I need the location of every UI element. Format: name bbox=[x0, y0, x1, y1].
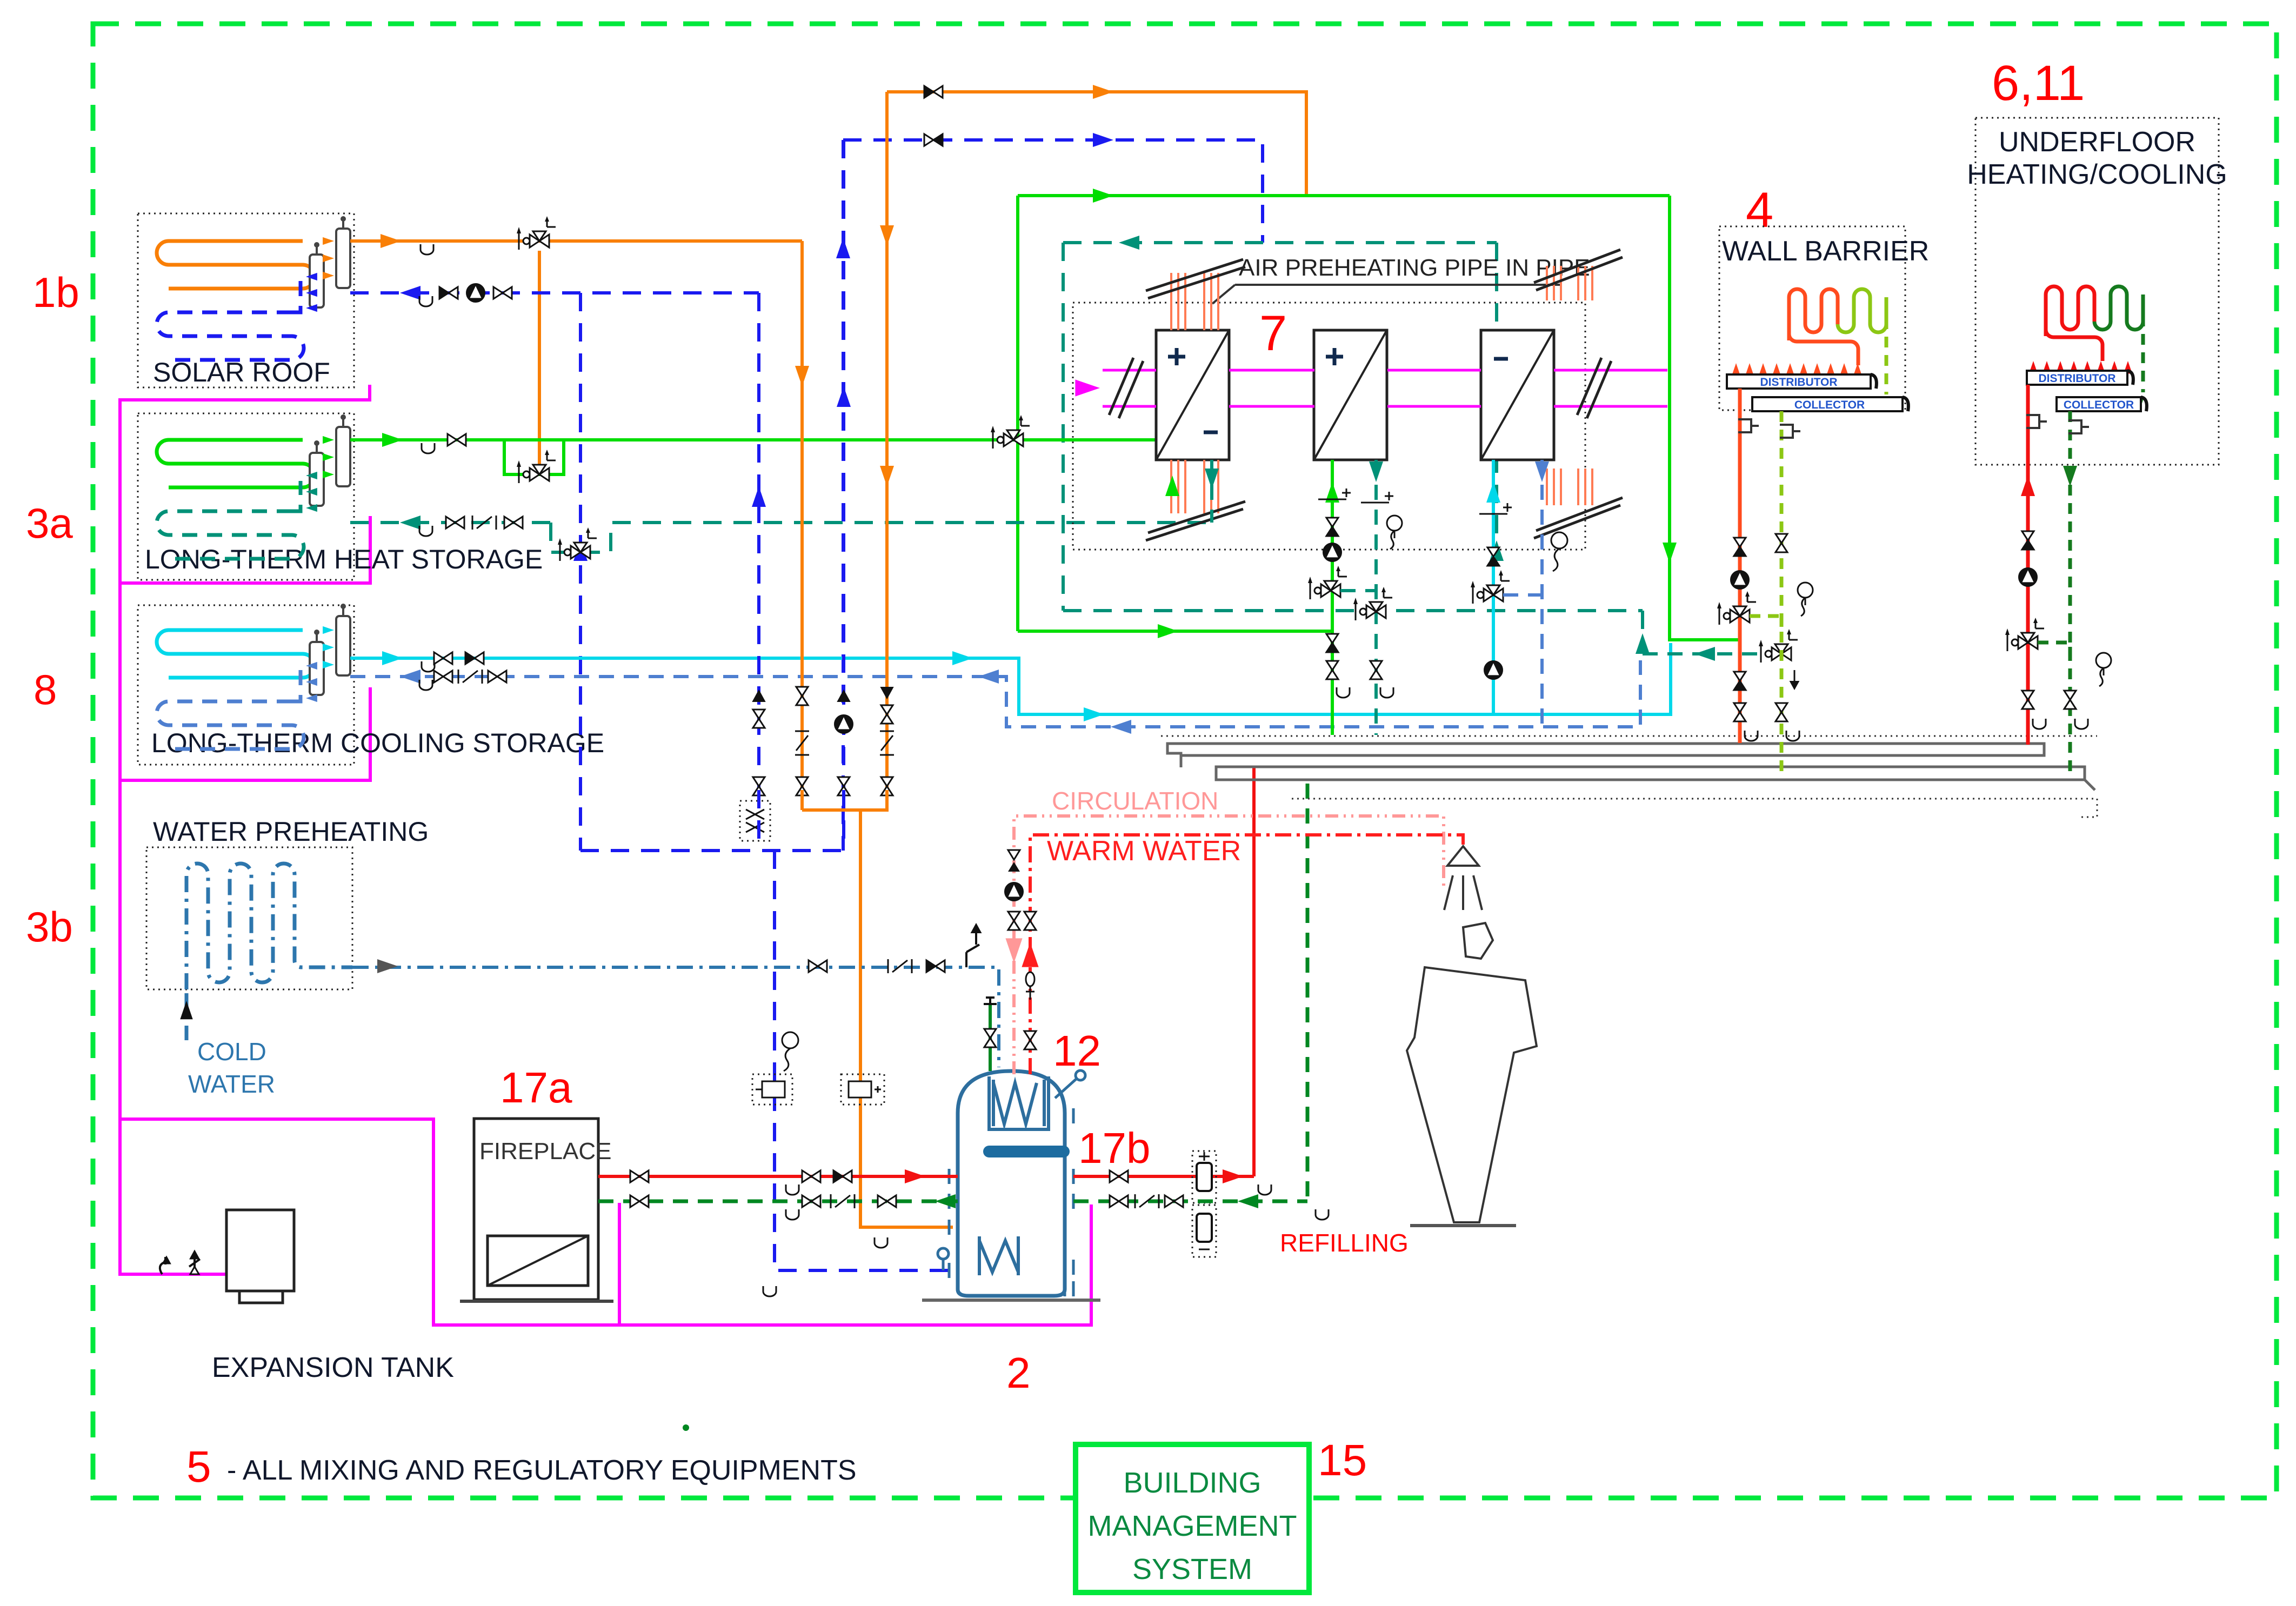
arrow ltcs supply 3 bbox=[1084, 707, 1104, 721]
pump solar return bbox=[466, 284, 485, 302]
box WATER PREHEATING bbox=[146, 847, 352, 989]
drain lths supply bbox=[422, 443, 435, 453]
svg-text:WATER: WATER bbox=[188, 1070, 275, 1098]
pipe teal left drop bbox=[1062, 243, 1065, 611]
pipe refilling drop bbox=[1306, 784, 1310, 1201]
duct break left bbox=[1109, 358, 1143, 418]
drain blue at tank bbox=[763, 1286, 776, 1296]
ltcs hx cylinder 2 bbox=[310, 642, 324, 695]
pipe ltcs blue return bbox=[350, 660, 1640, 727]
arrow fireplace red bbox=[905, 1169, 925, 1183]
tick E2 teal bbox=[1361, 502, 1389, 504]
pipe solar orange supply bbox=[350, 239, 802, 243]
valve underfloor green bbox=[2064, 691, 2076, 700]
svg-text:CIRCULATION: CIRCULATION bbox=[1052, 787, 1218, 815]
threeway wall red bbox=[1730, 610, 1740, 623]
valve cold water bbox=[809, 960, 818, 972]
duct roof corner top bbox=[1534, 250, 1623, 290]
svg-text:12: 12 bbox=[1053, 1027, 1101, 1075]
arrow teal riser bbox=[1636, 633, 1650, 654]
svg-text:4: 4 bbox=[1746, 183, 1773, 238]
pipe lths green supply bbox=[350, 440, 1172, 460]
person body bbox=[1407, 967, 1537, 1222]
pipe fireplace red supply bbox=[598, 1175, 958, 1178]
drain solar supply bbox=[421, 244, 433, 255]
expansion tank body bbox=[226, 1210, 294, 1291]
gauge E3 cornflower bbox=[1551, 532, 1567, 548]
meter box on orange drop bbox=[841, 1074, 884, 1105]
svg-text:7: 7 bbox=[1259, 306, 1287, 361]
duct risers box corner bbox=[1546, 266, 1548, 300]
branch E2 3ways bbox=[1340, 591, 1376, 602]
arrow blue riser A bbox=[752, 486, 766, 507]
valve fireplace red 1 bbox=[630, 1170, 639, 1182]
wall coil red bbox=[1789, 289, 1838, 340]
lths hx arrows bbox=[323, 436, 334, 444]
arrow orange riser A bbox=[795, 366, 809, 386]
pipe lths teal return dip bbox=[551, 523, 1212, 552]
svg-text:- ALL MIXING AND REGULATORY EQ: - ALL MIXING AND REGULATORY EQUIPMENTS bbox=[227, 1455, 857, 1486]
arrow lths return bbox=[400, 516, 421, 530]
pipe wall lime return bbox=[1780, 411, 1784, 777]
tick E3 cyan bbox=[1479, 513, 1507, 515]
arrow tank red out bbox=[1223, 1169, 1243, 1183]
arrow green supply hp bbox=[1158, 624, 1178, 638]
duct roof E1 top bbox=[1146, 259, 1245, 298]
safety valve cold water bbox=[966, 933, 979, 967]
arrow underfloor green bbox=[2063, 466, 2077, 486]
threeway valve solar bbox=[530, 235, 539, 247]
slab bar 1 bbox=[1167, 744, 2044, 767]
arrow cold water bbox=[377, 959, 398, 973]
box SOLAR ROOF bbox=[138, 213, 354, 387]
lths teal coil riser bbox=[292, 481, 301, 511]
lths hx cylinder 2 bbox=[310, 453, 324, 506]
pump E2 green bbox=[1323, 543, 1341, 561]
drain E2 green bbox=[1337, 687, 1350, 698]
wall distributor arrows bbox=[1732, 363, 1740, 376]
pipe teal riser to wall return bbox=[1641, 611, 1644, 654]
pipe green drop to mixing valve bbox=[1016, 196, 1019, 631]
box UNDERFLOOR bbox=[1975, 118, 2219, 465]
check cluster blue B bbox=[838, 691, 850, 701]
duct risers E1 bbox=[1170, 273, 1172, 330]
pipe orange top bbox=[887, 92, 1306, 196]
pipe cluster vertical 0 bbox=[757, 686, 760, 790]
valve wall red check bbox=[1734, 538, 1746, 547]
pipe teal top bbox=[1063, 241, 1497, 244]
pipe cluster vertical 1 bbox=[800, 686, 804, 790]
svg-text:WARM WATER: WARM WATER bbox=[1047, 835, 1241, 867]
arrow ltcs return bbox=[400, 670, 421, 684]
ltcs hx cylinder 1 bbox=[336, 616, 350, 675]
svg-text:DISTRIBUTOR: DISTRIBUTOR bbox=[1760, 376, 1837, 389]
slab bottom dotted bbox=[1292, 799, 2097, 817]
threeway valve lths line bbox=[1004, 433, 1013, 446]
tank inner top coil bbox=[989, 1076, 1049, 1129]
check cold water bbox=[926, 960, 936, 972]
pipe cluster vertical 2 bbox=[842, 686, 845, 790]
arrow E2 teal bbox=[1369, 461, 1383, 482]
drain ltcs supply bbox=[422, 661, 435, 672]
valve green feed bbox=[984, 1029, 996, 1038]
pipe tank red out bbox=[1073, 1175, 1254, 1178]
ltcs hx arrows bbox=[323, 626, 334, 634]
pipe green middle bbox=[1018, 194, 1670, 197]
svg-text:3a: 3a bbox=[26, 499, 73, 547]
heat exchanger E2 bbox=[1314, 330, 1387, 460]
ltcs coil riser bbox=[292, 670, 301, 701]
arrow green middle bbox=[1093, 189, 1113, 203]
pipe blue top bbox=[843, 140, 1263, 243]
valve E2 green 2 bbox=[1326, 634, 1338, 643]
pipe wall red supply bbox=[1738, 389, 1742, 743]
fireplace inner unit bbox=[488, 1236, 588, 1286]
valve wall red 3 bbox=[1734, 703, 1746, 712]
water preheating coil bbox=[186, 864, 352, 989]
underfloor coil green drop bbox=[2141, 297, 2145, 392]
tank handle bbox=[1055, 1079, 1077, 1098]
arrow orange riser B bbox=[880, 466, 894, 486]
pipe underfloor green bbox=[2068, 411, 2072, 777]
valve tank green 2 bbox=[1165, 1195, 1174, 1207]
lths green coil bbox=[157, 440, 315, 487]
pump E3 cyan bbox=[1484, 661, 1503, 679]
arrow blue drop 1074 bbox=[573, 540, 588, 561]
slab top dotted bbox=[1161, 735, 2097, 737]
check cluster orange B bbox=[881, 687, 893, 698]
drain wall red bbox=[1745, 731, 1758, 741]
pipe blue junction H bbox=[580, 849, 845, 852]
valve wall lime 2 bbox=[1776, 703, 1787, 712]
svg-text:LONG-THERM COOLING STORAGE: LONG-THERM COOLING STORAGE bbox=[151, 728, 604, 758]
pipe blue drop at 1074 bbox=[579, 293, 582, 851]
arrow tank green return bbox=[1238, 1194, 1258, 1208]
valve underfloor red 2 bbox=[2022, 691, 2034, 700]
svg-text:8: 8 bbox=[34, 666, 57, 713]
valve warm water 2 bbox=[1024, 1031, 1036, 1040]
box BUILDING MANAGEMENT SYSTEM bbox=[1076, 1444, 1309, 1592]
pump wall red bbox=[1731, 571, 1749, 589]
valve on blue top bbox=[924, 134, 933, 146]
green bypass frame bbox=[504, 440, 564, 474]
gauge on blue drop bbox=[782, 1032, 798, 1048]
pipe orange riser A bbox=[800, 241, 804, 686]
pipe orange drop from 3way bbox=[538, 251, 541, 465]
connector green bbox=[1192, 1205, 1216, 1257]
cold water inlet bbox=[185, 993, 189, 1040]
meter box on blue A bbox=[740, 801, 770, 841]
check valve ltcs supply bbox=[465, 652, 475, 664]
underfloor coil red bbox=[2046, 286, 2094, 336]
pipe lths teal return bbox=[350, 521, 551, 524]
underfloor DISTRIBUTOR bar bbox=[2027, 371, 2127, 385]
arrow E1 teal bbox=[1205, 469, 1219, 489]
magenta branch to heat storage box bbox=[120, 516, 370, 583]
duct roof corner bottom bbox=[1534, 498, 1623, 538]
cold water arrow bbox=[180, 1001, 192, 1019]
valve cluster low 1 bbox=[796, 777, 808, 786]
green dot bbox=[683, 1424, 689, 1431]
box FIREPLACE bbox=[474, 1119, 598, 1300]
bracket wall lime bbox=[1780, 425, 1800, 438]
reg tank green bbox=[1134, 1194, 1136, 1208]
valve cluster blue A bbox=[753, 710, 765, 719]
pipe green feed to tank bbox=[989, 1003, 992, 1071]
svg-text:SYSTEM: SYSTEM bbox=[1132, 1553, 1252, 1585]
svg-text:WALL BARRIER: WALL BARRIER bbox=[1722, 236, 1929, 267]
valve ltcs return 1 bbox=[434, 671, 443, 682]
valve on orange top bbox=[924, 86, 933, 98]
pipe teal bottom run bbox=[1063, 609, 1643, 612]
svg-text:15: 15 bbox=[1318, 1436, 1367, 1485]
bracket underfloor red bbox=[2026, 415, 2047, 428]
svg-text:REFILLING: REFILLING bbox=[1280, 1229, 1409, 1257]
arrow orange drop bbox=[880, 225, 894, 246]
solar blue return coil bbox=[157, 312, 304, 360]
svg-text:WATER PREHEATING: WATER PREHEATING bbox=[153, 817, 429, 847]
arrow green drop right bbox=[1663, 543, 1677, 563]
tank ports bbox=[949, 1169, 958, 1184]
check cluster blue A bbox=[753, 691, 765, 701]
svg-text:BUILDING: BUILDING bbox=[1123, 1467, 1261, 1499]
pump circulation bbox=[1005, 882, 1023, 901]
arrow teal wall return bbox=[1694, 647, 1715, 661]
drain underfloor green bbox=[2075, 719, 2088, 729]
pipe warm water bbox=[1030, 835, 1463, 1074]
svg-text:5: 5 bbox=[186, 1442, 211, 1491]
svg-text:3b: 3b bbox=[26, 903, 73, 951]
pipe solar blue return bbox=[350, 291, 759, 295]
pipe E2 green bbox=[1331, 460, 1334, 735]
pipe cold water run bbox=[352, 967, 999, 1067]
arrow E3 cornflower bbox=[1535, 461, 1549, 482]
valve lths return 2 bbox=[504, 517, 513, 528]
pipe fireplace green return bbox=[598, 1200, 958, 1203]
valve underfloor red check bbox=[2022, 531, 2034, 540]
tick E2 green bbox=[1318, 499, 1346, 500]
valve cluster low 3 bbox=[881, 777, 893, 786]
solar orange coil bbox=[157, 241, 315, 289]
valve E3 cyan bbox=[1487, 547, 1499, 557]
valve cluster low 2 bbox=[838, 777, 850, 786]
heat exchanger E3 bbox=[1481, 330, 1554, 460]
bracket underfloor green bbox=[2068, 420, 2089, 433]
threeway E2 teal bbox=[1366, 605, 1376, 618]
box LONG-THERM HEAT STORAGE bbox=[138, 413, 354, 580]
arrow teal top bbox=[1119, 236, 1139, 250]
pipe blue riser B bbox=[842, 140, 845, 686]
pipe E1 teal port bbox=[1210, 460, 1213, 523]
vent warm water bbox=[1026, 983, 1034, 1000]
pipe underfloor red bbox=[2026, 385, 2030, 745]
drain red riser bbox=[1258, 1185, 1271, 1195]
svg-text:COLLECTOR: COLLECTOR bbox=[1794, 399, 1865, 411]
svg-text:COLD: COLD bbox=[197, 1038, 266, 1066]
svg-text:HEATING/COOLING: HEATING/COOLING bbox=[1967, 159, 2227, 190]
box LONG-THERM COOLING STORAGE bbox=[138, 605, 354, 765]
bracket wall red bbox=[1738, 419, 1759, 432]
magenta branch to cooling storage box bbox=[120, 687, 370, 780]
shower spray bbox=[1444, 875, 1482, 910]
duct magenta lower bbox=[1103, 405, 1667, 408]
valve warm water bbox=[1024, 912, 1036, 921]
pipe green supply to heat pump bbox=[1018, 630, 1332, 633]
duct magenta upper bbox=[1103, 369, 1667, 372]
drain fireplace green bbox=[786, 1209, 799, 1220]
valve E2 green check bbox=[1326, 518, 1338, 527]
fitting green feed bbox=[984, 998, 997, 1004]
pipe tank green return bbox=[1073, 1200, 1307, 1203]
underfloor coil green bbox=[2094, 286, 2143, 330]
underfloor distributor arrows bbox=[2029, 361, 2038, 374]
drain underfloor red bbox=[2033, 719, 2046, 729]
meter box on blue drop bbox=[752, 1074, 792, 1105]
valve fireplace red 2 bbox=[802, 1170, 811, 1182]
drain refilling bbox=[1316, 1209, 1329, 1220]
solar blue coil riser bbox=[292, 281, 301, 312]
tank body bbox=[958, 1071, 1065, 1296]
valve ltcs return 2 bbox=[488, 671, 497, 682]
valve tank red bbox=[1110, 1170, 1119, 1182]
reg cold water bbox=[887, 959, 889, 973]
arrow E2 green bbox=[1325, 482, 1339, 503]
branch underfloor 3way bbox=[2038, 643, 2070, 651]
valve fireplace green 3 bbox=[878, 1195, 887, 1207]
shower head bbox=[1447, 846, 1479, 866]
arrow solar supply bbox=[381, 234, 401, 248]
valve lths return 1 bbox=[446, 517, 455, 528]
pipe green drop right bbox=[1670, 196, 1740, 640]
tank thick bar 17b bbox=[989, 1146, 1064, 1157]
pipe red riser to slab bbox=[1252, 767, 1256, 1176]
underfloor collector arrows bbox=[2058, 397, 2066, 410]
svg-text:FIREPLACE: FIREPLACE bbox=[479, 1138, 612, 1165]
underfloor COLLECTOR bar bbox=[2057, 397, 2141, 411]
magenta expansion-line trunk bbox=[120, 385, 370, 1274]
pipe orange merge bbox=[802, 808, 860, 812]
arrowmark teal-lime bbox=[1794, 670, 1796, 682]
drain solar return bbox=[419, 296, 432, 306]
branch wall lime bbox=[1750, 616, 1781, 627]
valve cluster low 0 bbox=[753, 777, 765, 786]
svg-text:17a: 17a bbox=[500, 1063, 572, 1112]
pipe E3 cyan bbox=[1492, 460, 1495, 714]
pipe blue tank drop bbox=[775, 851, 953, 1270]
pump cluster blue B bbox=[835, 715, 853, 733]
pipe orange riser B upper bbox=[885, 92, 889, 270]
person head bbox=[1463, 923, 1493, 959]
valve cluster orange B bbox=[881, 705, 893, 714]
valve E2 green 3 bbox=[1326, 661, 1338, 670]
threeway teal-lime bbox=[1772, 647, 1781, 660]
arrow blue top bbox=[1093, 133, 1113, 147]
branch E3 3way bbox=[1503, 593, 1542, 597]
svg-text:2: 2 bbox=[1006, 1349, 1031, 1397]
box WALL BARRIER bbox=[1719, 226, 1905, 410]
pipe orange riser B bbox=[885, 270, 889, 686]
pipe orange A drop bbox=[800, 790, 804, 810]
thermo underfloor green bbox=[2096, 653, 2111, 668]
pipe blue A to junction bbox=[757, 790, 760, 851]
wall collector arrows bbox=[1757, 396, 1765, 409]
arrow circulation bbox=[1005, 938, 1022, 963]
valve circulation bbox=[1008, 912, 1020, 921]
svg-text:MANAGEMENT: MANAGEMENT bbox=[1087, 1510, 1297, 1542]
pipe blue top-left drop bbox=[842, 140, 845, 851]
arrow ltcs supply 2 bbox=[952, 651, 973, 665]
solar hx cylinder 2 bbox=[310, 255, 324, 307]
reg lths return bbox=[472, 516, 473, 530]
solar hx arrows bbox=[323, 237, 334, 245]
thermo E2 teal bbox=[1387, 516, 1402, 531]
valve wall lime 1 bbox=[1776, 534, 1787, 543]
arrow warm water bbox=[1022, 942, 1038, 967]
valve wall red 2 bbox=[1734, 672, 1746, 681]
svg-text:1b: 1b bbox=[32, 269, 79, 316]
arrow ltcs supply bbox=[382, 651, 403, 665]
valve ltcs supply bbox=[434, 652, 443, 664]
arrow underfloor red bbox=[2021, 476, 2035, 496]
drain wall lime bbox=[1786, 731, 1799, 741]
valve solar return 1 bbox=[439, 287, 449, 299]
arrow ltcs return 2 bbox=[978, 670, 999, 684]
valve fireplace green 2 bbox=[802, 1195, 811, 1207]
arrow solar return bbox=[400, 286, 421, 300]
threeway valve green bypass bbox=[530, 468, 539, 481]
duct break right bbox=[1577, 358, 1611, 418]
arrow teal right drop bbox=[1490, 540, 1504, 561]
tank bottom coil bbox=[979, 1236, 1018, 1275]
reg cluster orange B bbox=[880, 731, 894, 732]
pipe blue B drop bbox=[842, 790, 845, 851]
check fireplace red bbox=[833, 1170, 843, 1182]
arrow E1 green bbox=[1165, 476, 1179, 496]
fireplace floor bbox=[460, 1300, 613, 1303]
reg cluster orange A bbox=[795, 731, 809, 732]
drain E2 teal bbox=[1380, 687, 1393, 698]
pipe circulation bbox=[1014, 816, 1444, 1074]
check circulation bbox=[1008, 850, 1020, 860]
wall coil green bbox=[1838, 289, 1886, 332]
slab bar 2 bbox=[1216, 767, 2095, 790]
expansion safety symbols bbox=[160, 1257, 165, 1274]
valve tank green 1 bbox=[1110, 1195, 1119, 1207]
valve fireplace green 1 bbox=[630, 1195, 639, 1207]
svg-text:EXPANSION TANK: EXPANSION TANK bbox=[212, 1352, 454, 1383]
reg ltcs return bbox=[458, 670, 459, 684]
label underline bbox=[1212, 285, 1562, 304]
ltcs blue return coil bbox=[157, 701, 304, 749]
lths teal return coil bbox=[157, 511, 304, 559]
valve solar return 2 bbox=[493, 287, 503, 299]
threeway E2 green bbox=[1321, 584, 1331, 597]
pipe orange top-left drop bbox=[885, 92, 889, 810]
valve E2 teal 2 bbox=[1370, 661, 1382, 670]
box air preheating bbox=[1073, 303, 1585, 550]
duct inlet arrow bbox=[1075, 379, 1100, 396]
arrow lths supply bbox=[382, 433, 403, 447]
drain lths return bbox=[419, 526, 432, 536]
arrow E3 cyan bbox=[1486, 482, 1500, 503]
reg fireplace green bbox=[830, 1194, 832, 1208]
svg-text:17b: 17b bbox=[1078, 1124, 1150, 1172]
drain fireplace red bbox=[786, 1185, 799, 1195]
person base bbox=[1410, 1224, 1516, 1227]
pipe orange join riser bbox=[860, 790, 953, 1227]
pipe cluster vertical 3 bbox=[885, 686, 889, 790]
svg-text:AIR PREHEATING PIPE IN PIPE: AIR PREHEATING PIPE IN PIPE bbox=[1239, 255, 1590, 281]
